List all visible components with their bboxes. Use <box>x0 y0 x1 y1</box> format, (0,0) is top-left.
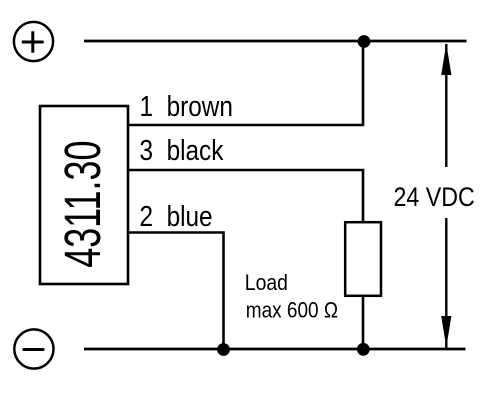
svg-text:24 VDC: 24 VDC <box>394 182 475 212</box>
svg-text:4311.30: 4311.30 <box>55 141 112 268</box>
svg-text:1 brown: 1 brown <box>140 90 233 122</box>
svg-text:2 blue: 2 blue <box>140 200 213 232</box>
svg-text:max 600 Ω: max 600 Ω <box>246 298 338 323</box>
svg-text:Load: Load <box>245 271 288 295</box>
svg-text:3 black: 3 black <box>140 134 224 166</box>
